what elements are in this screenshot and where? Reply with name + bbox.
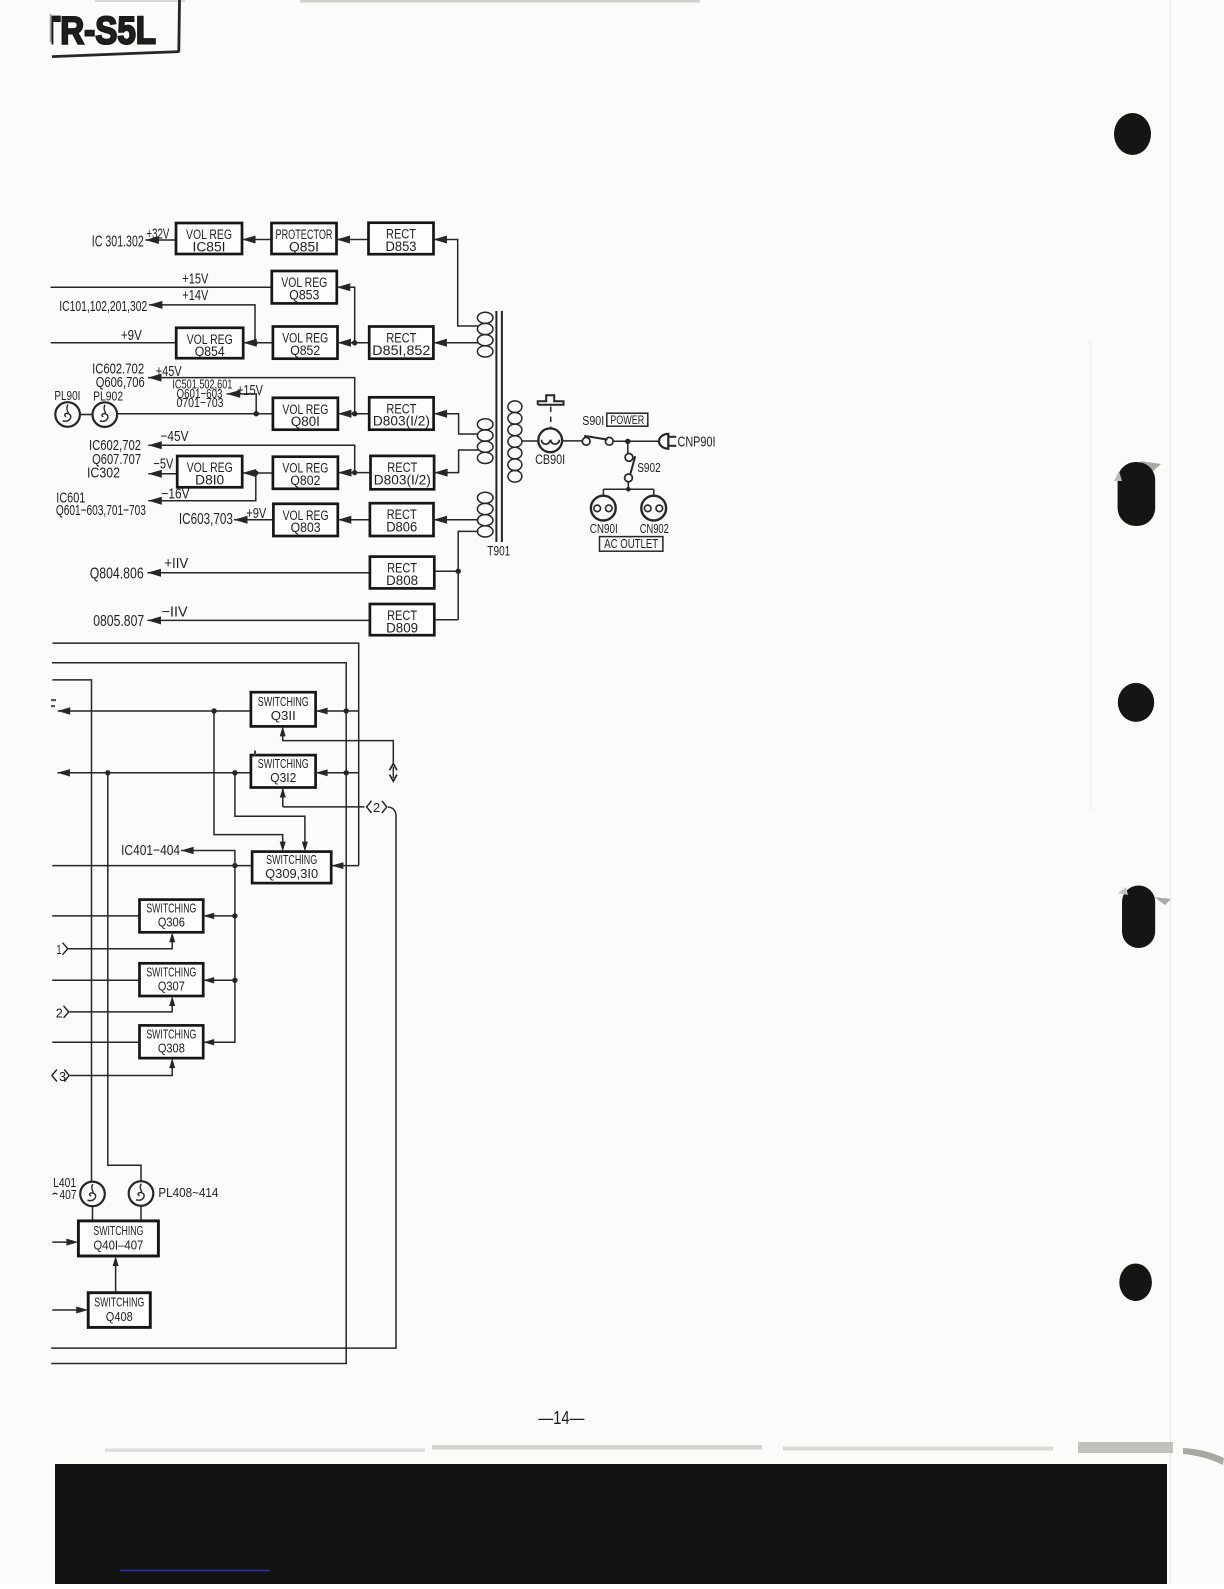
svg-text:Q802: Q802 (290, 473, 320, 488)
svg-text:D806: D806 (386, 520, 417, 535)
svg-text:Q85I: Q85I (289, 239, 319, 254)
svg-text:Q309,3I0: Q309,3I0 (265, 867, 318, 881)
svg-text:CB90I: CB90I (535, 452, 565, 467)
svg-text:S902: S902 (637, 460, 661, 475)
svg-text:Q408: Q408 (106, 1310, 133, 1324)
svg-text:PL90I: PL90I (54, 388, 80, 403)
svg-text:Q308: Q308 (158, 1041, 185, 1055)
svg-text:Q3II: Q3II (271, 709, 296, 723)
svg-text:SWITCHING: SWITCHING (94, 1296, 144, 1310)
svg-text:3: 3 (59, 1070, 66, 1084)
svg-text:T901: T901 (487, 543, 510, 558)
svg-text:+9V: +9V (121, 328, 142, 344)
svg-text:D803(I/2): D803(I/2) (374, 472, 431, 487)
svg-text:IC302: IC302 (87, 464, 120, 481)
svg-text:SWITCHING: SWITCHING (258, 757, 309, 771)
svg-text:CNP90I: CNP90I (678, 435, 716, 451)
svg-text:IC603,703: IC603,703 (179, 511, 233, 528)
svg-text:S90I: S90I (582, 413, 604, 428)
svg-text:IC101,102,201,302: IC101,102,201,302 (59, 298, 147, 315)
svg-text:POWER: POWER (610, 413, 644, 427)
svg-text:AC OUTLET: AC OUTLET (604, 537, 658, 551)
svg-text:SWITCHING: SWITCHING (266, 853, 317, 867)
svg-text:SWITCHING: SWITCHING (258, 695, 309, 709)
svg-text:Q852: Q852 (290, 343, 320, 358)
svg-text:Q80I: Q80I (291, 414, 320, 429)
svg-text:Q306: Q306 (158, 916, 185, 930)
svg-text:—14—: —14— (538, 1408, 584, 1428)
svg-text:+14V: +14V (182, 288, 208, 304)
svg-text:2: 2 (56, 1006, 63, 1020)
svg-text:IC85I: IC85I (193, 239, 226, 254)
svg-text:2: 2 (373, 801, 380, 815)
svg-text:IC 301.302: IC 301.302 (92, 234, 144, 251)
svg-text:Q854: Q854 (195, 344, 225, 359)
svg-text:Q803: Q803 (291, 520, 321, 535)
svg-text:PL902: PL902 (93, 389, 123, 404)
svg-text:SWITCHING: SWITCHING (146, 965, 196, 979)
svg-text:CN90I: CN90I (590, 521, 618, 536)
svg-text:Q307: Q307 (158, 979, 185, 993)
svg-text:0701−703: 0701−703 (177, 395, 224, 410)
svg-text:Q40I–407: Q40I–407 (93, 1238, 143, 1252)
svg-text:SWITCHING: SWITCHING (146, 1027, 196, 1041)
svg-text:D803(I/2): D803(I/2) (373, 414, 430, 429)
svg-text:IC401−404: IC401−404 (121, 843, 180, 859)
svg-text:SWITCHING: SWITCHING (93, 1224, 143, 1238)
svg-text:Q804.806: Q804.806 (90, 566, 144, 583)
svg-text:PL408~414: PL408~414 (158, 1185, 218, 1200)
svg-text:+15V: +15V (237, 383, 263, 399)
svg-text:Q3I2: Q3I2 (270, 771, 296, 785)
svg-text:D85I,852: D85I,852 (372, 343, 430, 358)
svg-text:TR-S5L: TR-S5L (40, 10, 156, 53)
svg-text:SWITCHING: SWITCHING (146, 902, 196, 916)
svg-text:−5V: −5V (153, 457, 173, 473)
svg-text:1: 1 (57, 943, 62, 957)
svg-text:−IIV: −IIV (162, 605, 188, 621)
svg-text:D853: D853 (386, 239, 417, 254)
svg-text:Q853: Q853 (289, 287, 319, 302)
svg-text:D8I0: D8I0 (195, 472, 224, 487)
svg-text:407: 407 (60, 1187, 77, 1202)
svg-text:+15V: +15V (182, 272, 208, 288)
svg-text:CN902: CN902 (640, 521, 669, 536)
svg-text:+IIV: +IIV (164, 556, 188, 572)
svg-text:−45V: −45V (161, 429, 189, 445)
svg-text:Q601−603,701−703: Q601−603,701−703 (56, 502, 146, 519)
svg-text:+32V: +32V (146, 226, 169, 242)
svg-text:D809: D809 (386, 620, 418, 635)
svg-text:D808: D808 (386, 573, 418, 588)
svg-text:0805.807: 0805.807 (93, 613, 144, 630)
